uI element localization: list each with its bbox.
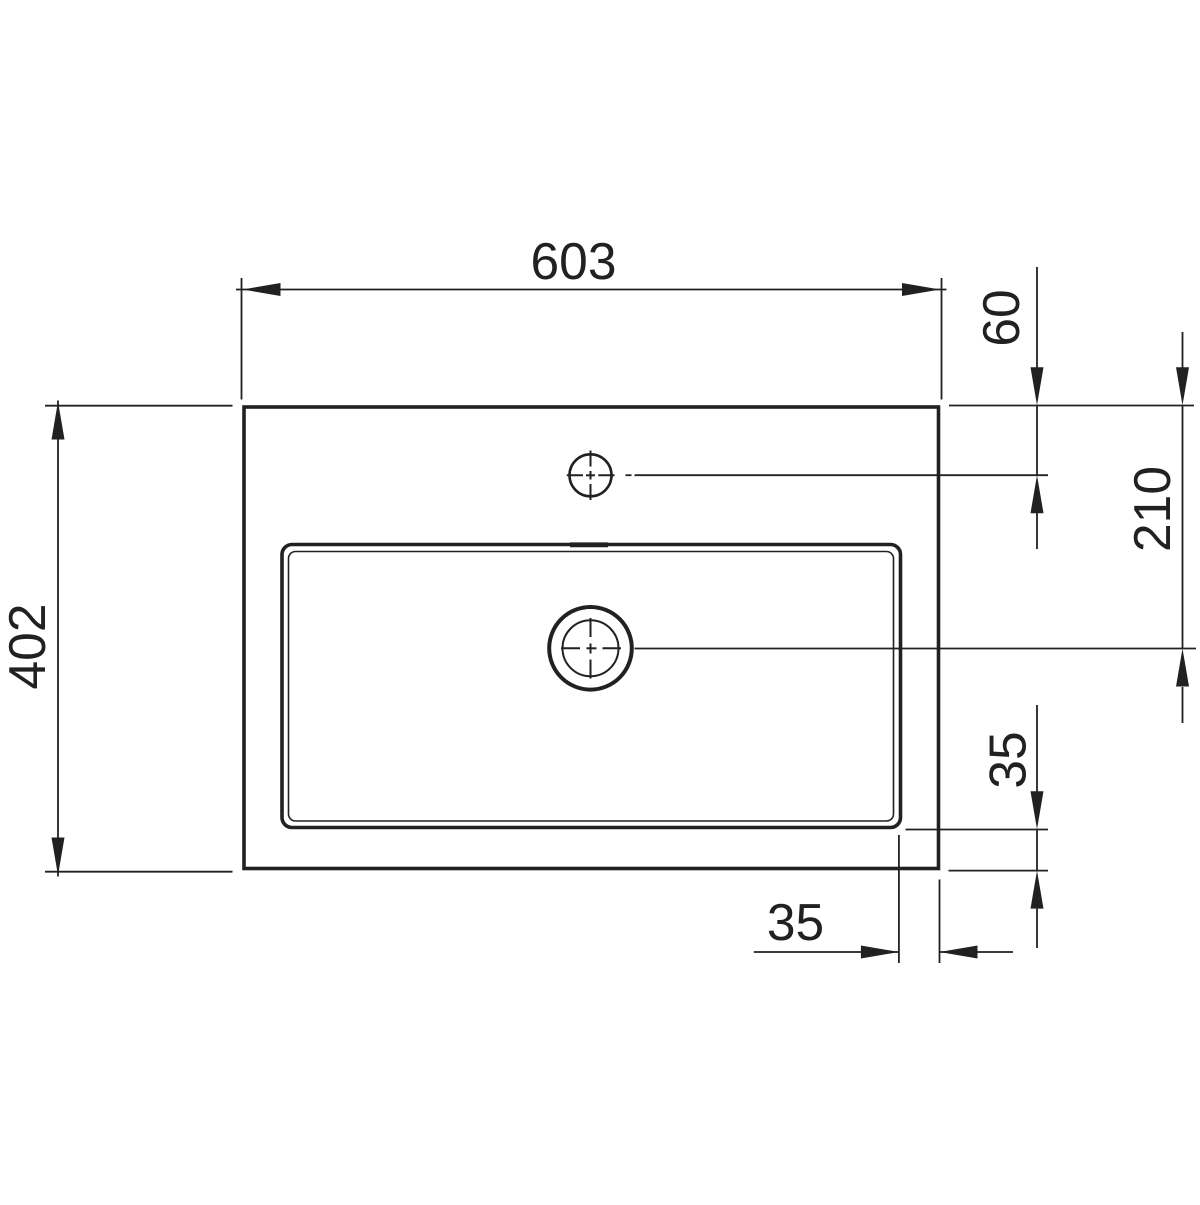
dim 60 span segment <box>1036 406 1038 476</box>
dim 60 upper segment <box>1036 267 1038 368</box>
drain inner circle <box>563 620 619 676</box>
dim 35 right lower arrow (up) <box>1031 871 1044 909</box>
dim 603 left arrow <box>243 283 281 296</box>
dim 60 top extension of rect top edge <box>949 405 1194 407</box>
dim 603 right arrow <box>902 283 940 296</box>
svg-text:603: 603 <box>531 232 617 290</box>
svg-text:60: 60 <box>972 289 1030 346</box>
dim 402 top arrow <box>52 402 65 440</box>
dim 603 left extension line <box>241 278 243 400</box>
dim 210 upper segment <box>1182 332 1184 368</box>
drain crosshair horizontal <box>561 647 580 649</box>
dim 210 upper arrow (down) <box>1176 367 1189 405</box>
dim 603 dimension line <box>236 289 947 291</box>
dim 35 right: bowl bottom extension line <box>906 829 1049 831</box>
dim 402 bottom extension line <box>45 871 233 873</box>
svg-text:210: 210 <box>1123 466 1181 552</box>
dim 35 right upper arrow (down) <box>1031 791 1044 829</box>
basin bowl outer rounded rect <box>282 545 901 828</box>
dim 60 upper arrow (down) <box>1031 367 1044 405</box>
dim 35 bottom left arrow (right) <box>861 946 899 959</box>
dim 35 right: rect bottom extension line <box>949 870 1049 872</box>
svg-text:35: 35 <box>767 893 824 951</box>
dim 35 right upper segment <box>1036 705 1038 792</box>
basin outer rectangle <box>244 407 939 869</box>
faucet hole circle <box>570 454 612 496</box>
dim 402 dimension line <box>57 401 59 877</box>
dim 402 top extension line <box>45 405 233 407</box>
dim 35 bottom: bowl-right extension line <box>898 835 900 963</box>
dim 60 lower arrow (up) <box>1031 475 1044 513</box>
overflow mark on bowl top edge <box>570 542 608 547</box>
drain centerline extension to right <box>635 648 1197 650</box>
svg-text:402: 402 <box>0 604 56 690</box>
dim 35 bottom right dimension line <box>940 951 1014 953</box>
dim 210 lower tail <box>1182 687 1184 723</box>
drain crosshair vertical <box>590 618 592 637</box>
dim 35 bottom: rect-right extension line <box>939 880 941 964</box>
dim 402 bottom arrow <box>52 838 65 876</box>
dim 210 span segment <box>1182 406 1184 649</box>
faucet hole crosshair vertical <box>590 451 592 467</box>
faucet centerline extension to right <box>626 474 632 476</box>
basin bowl inner line <box>289 552 894 822</box>
dim 35 right middle segment <box>1036 829 1038 870</box>
drain outer circle <box>549 607 632 690</box>
dim 210 lower arrow (up) <box>1176 649 1189 687</box>
faucet hole crosshair horizontal <box>567 474 583 476</box>
dim 35 right lower tail <box>1036 909 1038 948</box>
dim 35 bottom left dimension line <box>754 951 899 953</box>
svg-text:35: 35 <box>979 731 1037 788</box>
dim 35 bottom right arrow (left) <box>940 946 978 959</box>
dim 60 lower tail <box>1036 513 1038 549</box>
dim 603 right extension line <box>941 278 943 400</box>
